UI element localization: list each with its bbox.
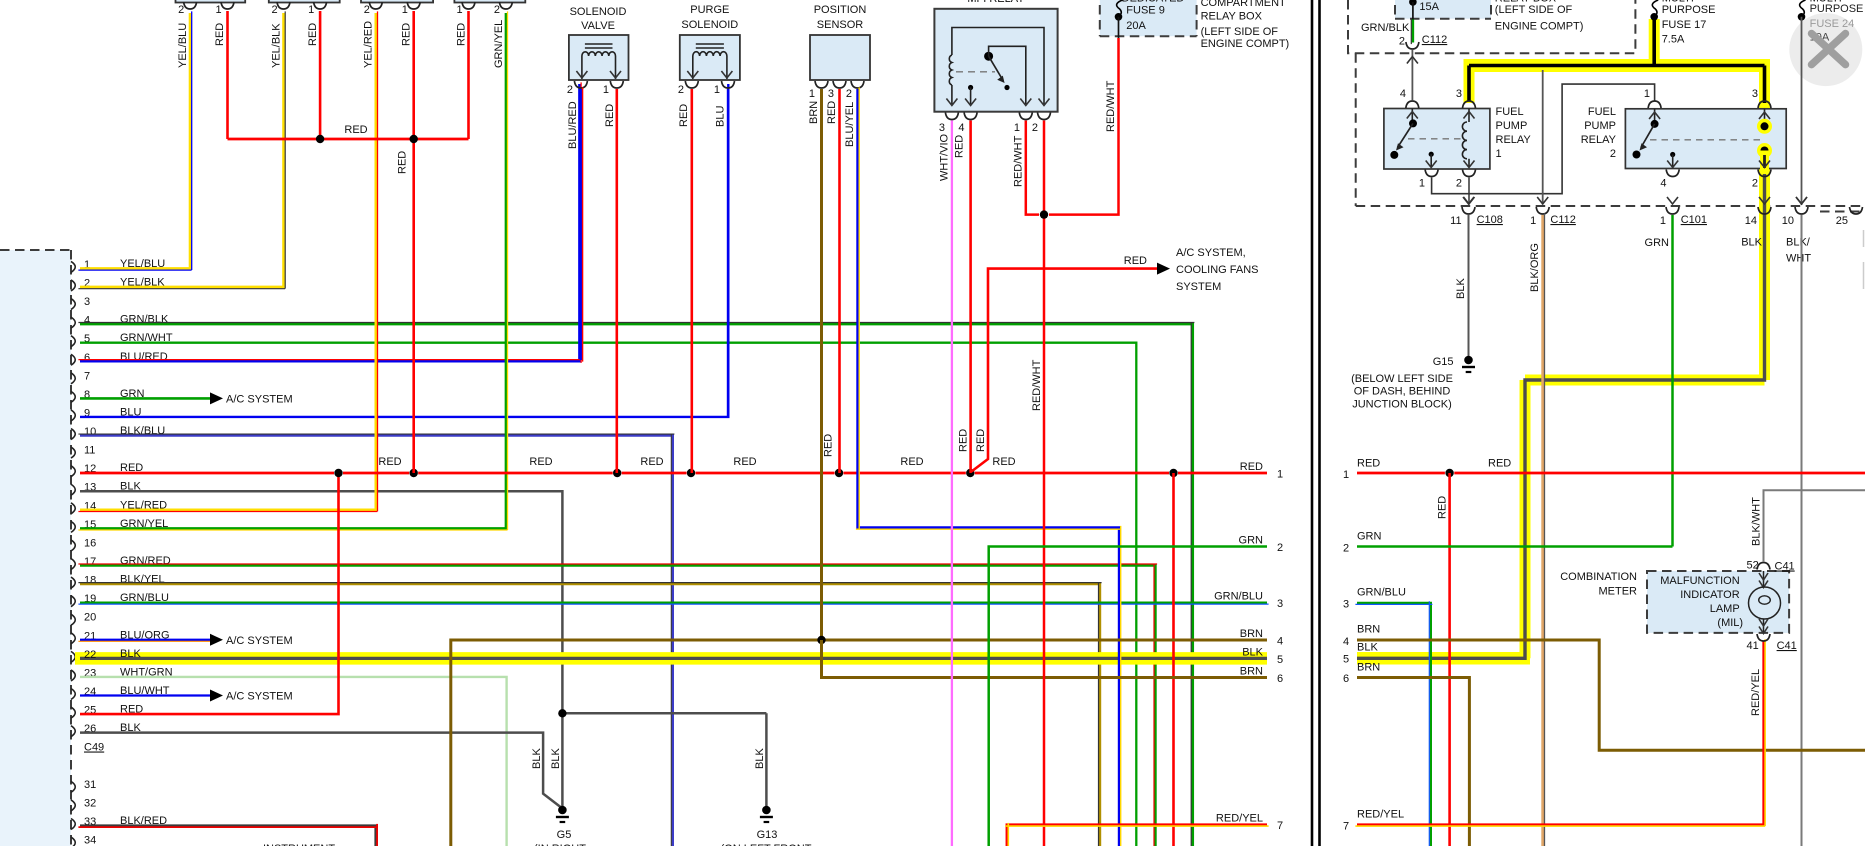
wire RED/YEL row7 left panel [1007, 825, 1267, 846]
svg-text:C112: C112 [1550, 214, 1575, 226]
wire pin19 GRN/BLU [80, 601, 1267, 603]
svg-text:OF DASH, BEHIND: OF DASH, BEHIND [1354, 386, 1451, 398]
svg-text:BRN: BRN [808, 101, 820, 124]
svg-text:7: 7 [84, 370, 90, 382]
wire RED to A/C cooling-fans [972, 269, 1158, 472]
svg-text:PUMP: PUMP [1496, 120, 1528, 132]
wire GRN C101 to row2 [1671, 215, 1674, 547]
svg-text:1: 1 [402, 4, 408, 16]
wire purge pin1 BLU [727, 89, 729, 417]
svg-text:(LEFT SIDE OF: (LEFT SIDE OF [1495, 4, 1573, 16]
svg-text:14: 14 [1745, 215, 1757, 227]
svg-text:4: 4 [958, 122, 964, 134]
svg-text:BLK: BLK [754, 748, 766, 769]
svg-text:BLK: BLK [531, 748, 543, 769]
svg-text:RELAY BOX: RELAY BOX [1201, 10, 1263, 22]
svg-text:2: 2 [178, 4, 184, 16]
wire RED bus drop to bottom [1172, 473, 1175, 846]
svg-text:2: 2 [364, 4, 370, 16]
svg-text:BLK/: BLK/ [1786, 237, 1811, 249]
wire pin26 BLK [80, 733, 561, 807]
svg-text:BLU/RED: BLU/RED [567, 101, 579, 149]
svg-text:SENSOR: SENSOR [817, 19, 864, 31]
svg-text:1: 1 [603, 84, 609, 96]
svg-text:1: 1 [1277, 469, 1283, 481]
svg-text:SYSTEM: SYSTEM [1176, 281, 1221, 293]
ECM pin cups and numbers [71, 261, 75, 272]
svg-text:BRN: BRN [1240, 628, 1263, 640]
svg-text:BLU/YEL: BLU/YEL [844, 102, 856, 147]
MIL lamp symbol [1763, 571, 1765, 587]
svg-text:RELAY: RELAY [1581, 134, 1617, 146]
svg-text:1: 1 [216, 4, 222, 16]
wire pin10 BLK/BLU [80, 436, 673, 846]
svg-text:25: 25 [1836, 215, 1848, 227]
svg-text:RED: RED [958, 429, 970, 452]
svg-text:2: 2 [1610, 148, 1616, 160]
svg-text:RED: RED [992, 456, 1015, 468]
svg-text:31: 31 [84, 779, 96, 791]
wire MFI pin1 RED/WHT [1026, 121, 1039, 215]
arrow A/C SYSTEM pin24 [210, 690, 223, 702]
wire pin25 RED [80, 473, 339, 714]
svg-text:ENGINE COMPT): ENGINE COMPT) [1201, 38, 1290, 50]
svg-text:METER: METER [1599, 586, 1638, 598]
svg-text:4: 4 [1343, 636, 1349, 648]
svg-text:A/C SYSTEM: A/C SYSTEM [226, 393, 293, 405]
wire pin13 BLK [80, 491, 562, 713]
component box 1 (top, cut off) [176, 0, 246, 3]
svg-text:BRN: BRN [1240, 666, 1263, 678]
wire box1 pin1 RED [226, 11, 229, 139]
svg-text:RED: RED [1240, 461, 1263, 473]
wire BLK/WHT pin52 [1764, 490, 1865, 562]
MFI relay U5 [934, 9, 1057, 112]
svg-text:2: 2 [846, 88, 852, 100]
svg-text:20: 20 [84, 612, 96, 624]
arrow + text A/C cooling fans [1157, 263, 1170, 275]
wire pos-sensor pin1 BRN [820, 89, 823, 640]
fuse 17 [1652, 0, 1658, 17]
wire pin5 GRN/WHT [80, 343, 1136, 846]
wire C112 to relay1 pin4 [1411, 50, 1413, 100]
position sensor box [810, 35, 870, 80]
upper dashed relay box [1348, 0, 1635, 53]
wire relay box to C112 [1542, 70, 1544, 205]
svg-text:11: 11 [1450, 215, 1461, 227]
close button circle backdrop [1789, 13, 1862, 86]
relay2 internals [1654, 109, 1656, 124]
svg-text:3: 3 [828, 88, 834, 100]
svg-text:C108: C108 [1477, 214, 1503, 226]
svg-text:RED: RED [1357, 458, 1380, 470]
wire fuse24 BLK/WHT upper [1801, 17, 1803, 205]
svg-text:1: 1 [809, 88, 815, 100]
svg-text:1: 1 [1014, 122, 1020, 134]
ground G13 [762, 806, 771, 815]
svg-text:PURPOSE: PURPOSE [1810, 3, 1864, 15]
svg-text:20A: 20A [1126, 20, 1146, 32]
svg-text:11: 11 [84, 445, 95, 457]
svg-text:10: 10 [1782, 215, 1794, 227]
svg-text:G15: G15 [1433, 356, 1454, 368]
junction dot ground bus [558, 709, 566, 717]
relay2 highlighted contacts [1757, 119, 1772, 134]
svg-text:(BELOW LEFT SIDE: (BELOW LEFT SIDE [1351, 373, 1453, 385]
fuse 15A box [1395, 0, 1491, 19]
junction dots top bus [316, 135, 324, 143]
connector C112 pin1 lower [1536, 207, 1549, 214]
connector C41 pin52 [1757, 563, 1770, 570]
wire GRN row2 right [1357, 545, 1673, 548]
svg-text:GRN: GRN [1357, 531, 1382, 543]
svg-text:C41: C41 [1775, 561, 1795, 573]
svg-text:BLK/WHT: BLK/WHT [1751, 497, 1763, 546]
svg-text:ENGINE COMPT): ENGINE COMPT) [1495, 21, 1584, 33]
component box 2 (top, cut off) [269, 0, 340, 3]
wire pin33 BLK/RED [80, 826, 376, 846]
svg-text:COOLING FANS: COOLING FANS [1176, 264, 1259, 276]
svg-text:6: 6 [1343, 673, 1349, 685]
svg-text:52: 52 [1747, 560, 1759, 572]
svg-text:MFI RELAY: MFI RELAY [967, 0, 1025, 5]
wire box3 pin1 RED [412, 11, 415, 473]
svg-text:(LEFT SIDE OF: (LEFT SIDE OF [1201, 26, 1279, 38]
wire BLK to grounds [562, 712, 766, 715]
svg-text:SOLENOID: SOLENOID [681, 19, 738, 31]
svg-text:RED: RED [378, 456, 401, 468]
wire pin14 YEL/RED [80, 13, 376, 510]
svg-text:7.5A: 7.5A [1662, 34, 1685, 46]
highlighted wire pin14 BLK (yellow trace) [1759, 166, 1770, 380]
svg-text:VALVE: VALVE [581, 20, 615, 32]
svg-text:FUSE 17: FUSE 17 [1662, 19, 1707, 31]
wire RED row1 right [1357, 472, 1445, 475]
junction dots on RED bus [334, 469, 342, 477]
wire GRN/BLU row3 right [1357, 603, 1431, 846]
wire relay1 pin2 BLK [1468, 178, 1470, 205]
svg-text:1: 1 [308, 4, 314, 16]
svg-text:RELAY: RELAY [1496, 134, 1532, 146]
svg-text:INDICATOR: INDICATOR [1680, 589, 1740, 601]
svg-text:7: 7 [1343, 821, 1349, 833]
wire BRN row6 right [1357, 678, 1469, 846]
svg-text:BLK: BLK [1455, 278, 1467, 299]
ECM connector block (left) [0, 250, 71, 846]
svg-text:GRN/YEL: GRN/YEL [493, 20, 505, 68]
svg-text:1: 1 [1660, 215, 1666, 227]
component box 3 (top, cut off) [361, 0, 433, 3]
wire pos-sensor pin3 RED [838, 89, 841, 473]
wire fuse9 RED/WHT [1049, 38, 1119, 215]
wire box2 pin1 RED [319, 11, 322, 139]
wire MFI pin2 RED/WHT [1043, 121, 1046, 846]
svg-text:BLK: BLK [1741, 237, 1762, 249]
svg-text:3: 3 [939, 122, 945, 134]
svg-text:2: 2 [1343, 543, 1349, 555]
wire pin9 BLU [80, 84, 728, 417]
svg-text:MALFUNCTION: MALFUNCTION [1660, 575, 1740, 587]
svg-text:A/C SYSTEM,: A/C SYSTEM, [1176, 247, 1246, 259]
svg-text:C101: C101 [1681, 214, 1707, 226]
svg-text:RED/YEL: RED/YEL [1357, 809, 1404, 821]
svg-text:GRN: GRN [1239, 535, 1264, 547]
wire pin8 GRN to A/C [80, 397, 210, 400]
svg-text:4: 4 [1400, 88, 1406, 100]
fuel pump relay 1 box [1384, 109, 1490, 170]
svg-text:RED: RED [900, 456, 923, 468]
svg-text:RED: RED [401, 23, 413, 46]
svg-text:RED: RED [1437, 496, 1449, 519]
wire BLK/ORG [1541, 215, 1544, 846]
wire pin12 RED bus [80, 472, 334, 475]
relay assembly dashed box [1355, 53, 1357, 206]
svg-text:32: 32 [84, 797, 96, 809]
svg-text:RED: RED [733, 456, 756, 468]
highlighted wire pin22 BLK (yellow trace) [75, 652, 1267, 665]
svg-text:BLK: BLK [550, 748, 562, 769]
wire MFI pin3 WHT/VIO [951, 121, 953, 846]
svg-text:RED: RED [678, 104, 690, 127]
connector C101 pin1 [1667, 197, 1678, 204]
wire SV1 pin2 BLU/RED [580, 89, 583, 360]
svg-text:BLK: BLK [1357, 642, 1378, 654]
svg-text:GRN/BLU: GRN/BLU [1357, 587, 1406, 599]
connector pin25 [1850, 207, 1863, 214]
svg-text:FUEL: FUEL [1588, 106, 1616, 118]
close (X) button [1812, 34, 1846, 65]
svg-text:RED: RED [307, 23, 319, 46]
svg-text:1: 1 [714, 84, 720, 96]
svg-text:2: 2 [494, 4, 500, 16]
highlighted wire fuse17 feed (yellow trace) [1649, 19, 1660, 66]
svg-text:5: 5 [1343, 654, 1349, 666]
svg-text:1: 1 [457, 4, 463, 16]
svg-text:YEL/BLU: YEL/BLU [177, 23, 189, 68]
svg-text:RED: RED [1488, 458, 1511, 470]
fuel pump relay 2 box [1625, 109, 1786, 169]
svg-text:RED: RED [214, 23, 226, 46]
wire BRN row4 right [1357, 640, 1865, 750]
svg-text:PUMP: PUMP [1584, 120, 1616, 132]
svg-text:COMBINATION: COMBINATION [1560, 571, 1637, 583]
wire pin6 BLU/RED [80, 84, 579, 361]
svg-text:FUSE 9: FUSE 9 [1126, 4, 1165, 16]
wire pin18 BLK/YEL [80, 584, 1100, 846]
svg-text:RED/WHT: RED/WHT [1013, 135, 1025, 187]
wire pos-sensor pin2 BLU/YEL [858, 89, 1120, 846]
svg-text:BRN: BRN [1357, 662, 1380, 674]
fuse 9 dedicated fuse box [1100, 0, 1197, 36]
svg-text:GRN/BLK: GRN/BLK [1361, 22, 1410, 34]
connector pin14 [1758, 207, 1771, 214]
wire box4 pin1 RED [467, 11, 470, 139]
svg-text:1: 1 [1343, 469, 1349, 481]
svg-text:RED: RED [456, 23, 468, 46]
svg-text:RED: RED [954, 135, 966, 158]
wire pin17 GRN/RED [80, 566, 1156, 846]
svg-text:3: 3 [1277, 598, 1283, 610]
svg-text:SOLENOID: SOLENOID [570, 6, 627, 18]
svg-text:3: 3 [1343, 599, 1349, 611]
svg-text:RED: RED [604, 104, 616, 127]
svg-text:4: 4 [1277, 636, 1283, 648]
panel divider double line [1311, 0, 1314, 846]
wire GRN/BLK to C112 [1412, 20, 1415, 43]
svg-text:C112: C112 [1422, 34, 1447, 46]
svg-text:RED/WHT: RED/WHT [1031, 359, 1043, 411]
junction dot BRN [817, 636, 825, 644]
connector C41 pin41 [1757, 634, 1770, 641]
svg-text:C49: C49 [84, 742, 104, 754]
wire pin1 YEL/BLU [80, 13, 190, 268]
svg-text:RED: RED [529, 456, 552, 468]
svg-text:2: 2 [1399, 36, 1405, 48]
wire BLK/WHT pin10 drop [1801, 215, 1803, 846]
junction dot RED/WHT [1040, 210, 1048, 218]
svg-text:JUNCTION BLOCK): JUNCTION BLOCK) [1352, 398, 1452, 410]
svg-text:16: 16 [84, 537, 96, 549]
svg-text:2: 2 [272, 4, 278, 16]
svg-text:BLU: BLU [715, 106, 727, 127]
connector pin10 [1796, 197, 1807, 204]
svg-text:41: 41 [1747, 640, 1759, 652]
wire SV1 pin1 RED [615, 89, 618, 473]
ground G15 [1464, 356, 1473, 365]
svg-text:RED/WHT: RED/WHT [1105, 80, 1117, 132]
svg-text:RED: RED [826, 101, 838, 124]
purge solenoid [680, 35, 740, 80]
MIL box [1647, 571, 1789, 633]
wire pin15 GRN/YEL [80, 13, 506, 528]
svg-text:C41: C41 [1777, 640, 1797, 652]
svg-text:RED: RED [823, 434, 835, 457]
wire pin2 YEL/BLK [80, 13, 284, 287]
svg-text:2: 2 [1456, 178, 1462, 190]
svg-text:1: 1 [1530, 215, 1536, 227]
wire GRN row2 left panel [989, 547, 1267, 846]
svg-text:4: 4 [1660, 178, 1666, 190]
svg-text:PURGE: PURGE [690, 4, 729, 16]
svg-text:BLK: BLK [120, 648, 141, 660]
svg-text:34: 34 [84, 835, 96, 846]
wire pin21 BLU/ORG to A/C [80, 639, 210, 641]
svg-text:WHT: WHT [1786, 253, 1811, 265]
wire MFI pin4 RED [969, 121, 972, 474]
svg-text:7: 7 [1277, 820, 1283, 832]
svg-text:RED: RED [1124, 255, 1147, 267]
svg-text:RED: RED [397, 151, 409, 174]
wire relay1 pin1 to relay2 pin1 [1432, 84, 1655, 194]
svg-text:RED: RED [640, 456, 663, 468]
arrow A/C SYSTEM pin8 [210, 392, 223, 404]
fuse 24 [1800, 0, 1806, 17]
wire fuse9 lead BLK [1118, 17, 1120, 38]
svg-text:A/C SYSTEM: A/C SYSTEM [226, 635, 293, 647]
wire BRN row4 [451, 640, 1267, 846]
svg-text:GRN/BLU: GRN/BLU [1214, 590, 1263, 602]
svg-text:G13: G13 [757, 829, 778, 841]
svg-text:A/C SYSTEM: A/C SYSTEM [226, 691, 293, 703]
svg-text:WHT/VIO: WHT/VIO [939, 134, 951, 181]
wire purge pin2 RED [690, 89, 693, 473]
svg-text:LAMP: LAMP [1710, 603, 1740, 615]
wire pin4 GRN/BLK [80, 324, 1193, 846]
svg-text:BRN: BRN [1357, 624, 1380, 636]
wire BLK to G15 [1468, 215, 1470, 356]
svg-text:BLK/ORG: BLK/ORG [1529, 243, 1541, 292]
wire pin23 WHT/GRN [80, 677, 507, 846]
ground G5 [558, 806, 567, 815]
svg-text:RED: RED [975, 429, 987, 452]
svg-text:RED/YEL: RED/YEL [1750, 669, 1762, 716]
junction dot row1 right [1445, 469, 1453, 477]
svg-text:6: 6 [1277, 673, 1283, 685]
svg-text:3: 3 [1752, 88, 1758, 100]
relay1 internals [1411, 109, 1413, 124]
wire top RED bus [228, 138, 469, 141]
svg-text:3: 3 [84, 296, 90, 308]
svg-text:1: 1 [1496, 148, 1502, 160]
svg-text:3: 3 [1456, 88, 1462, 100]
svg-text:2: 2 [1752, 178, 1758, 190]
svg-text:1: 1 [1419, 178, 1425, 190]
svg-text:(MIL): (MIL) [1717, 617, 1743, 629]
svg-text:FUSE 24: FUSE 24 [1810, 18, 1855, 30]
svg-text:PURPOSE: PURPOSE [1662, 4, 1716, 16]
svg-text:RED/YEL: RED/YEL [1216, 813, 1263, 825]
svg-text:YEL/RED: YEL/RED [363, 21, 375, 68]
svg-text:RED: RED [344, 124, 367, 136]
wire RED drop right [1448, 473, 1451, 846]
wire fuse15A lead [1412, 2, 1414, 20]
wire pin24 BLU/WHT to A/C [80, 694, 210, 696]
svg-text:15A: 15A [1419, 1, 1439, 13]
svg-text:5: 5 [1277, 654, 1283, 666]
svg-text:GRN: GRN [1645, 237, 1670, 249]
svg-text:FUEL: FUEL [1496, 106, 1524, 118]
svg-text:2: 2 [678, 84, 684, 96]
arrow A/C SYSTEM pin21 [210, 634, 223, 646]
svg-text:2: 2 [1032, 122, 1038, 134]
svg-text:2: 2 [567, 84, 573, 96]
solenoid valve SV1 [569, 35, 629, 80]
svg-text:COMPARTMENT: COMPARTMENT [1201, 0, 1286, 9]
svg-text:BLK: BLK [1242, 646, 1263, 658]
svg-text:G5: G5 [557, 829, 572, 841]
wire BRN row6 branch [822, 640, 1268, 678]
connector C108 pin11 [1463, 197, 1474, 204]
svg-text:YEL/BLK: YEL/BLK [271, 23, 283, 68]
svg-text:1: 1 [1644, 88, 1650, 100]
wire RED/YEL row7 right [1357, 641, 1764, 825]
component box 4 (top, cut off) [454, 0, 525, 3]
svg-text:POSITION: POSITION [814, 4, 867, 16]
svg-text:2: 2 [1277, 542, 1283, 554]
svg-text:22: 22 [84, 649, 96, 661]
